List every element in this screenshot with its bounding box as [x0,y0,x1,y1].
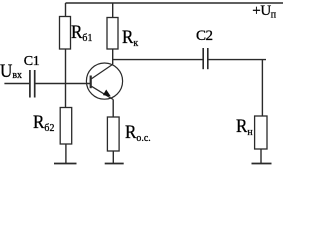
transistor base bar [90,76,92,89]
resistor Rn [255,116,267,149]
wire: Rb1 bottom through base node to Rb2 top [65,49,67,108]
wire: collector node to C2 [113,59,203,61]
capacitor C2 [202,48,204,69]
label Ro.c. [125,123,151,144]
resistor Rk [107,18,118,50]
wire: Rn to ground [260,149,262,164]
ground (Rb2) [54,163,77,165]
label C2 [196,29,213,44]
wire: corner down to Rn [261,60,263,116]
resistor Ro.c. [107,117,119,151]
transistor VT1 circle [86,63,122,99]
label Rb1 [71,23,92,44]
capacitor C1 [29,70,31,98]
label C1 [24,55,40,69]
wire: rail to Rb1 [65,3,67,17]
wire: rail to Rk [112,3,114,18]
transistor emitter lead [92,86,113,99]
label Rk [122,28,138,49]
wire: C2 to corner [208,59,266,61]
wire: Rk bottom to collector [112,49,114,65]
label Rb2 [33,113,54,134]
wire: +Up top rail [66,2,284,4]
ground (Rn) [252,163,272,165]
wire: C1 to base [35,83,90,85]
label +Up (supply) [252,4,275,21]
transistor emitter arrow [103,90,111,97]
label Rn (load) [236,117,253,138]
wire: Ro.c. to ground [112,151,114,164]
wire: emitter down to Ro.c. [112,99,114,117]
wire: input Uvx [4,83,29,85]
resistor Rb2 [60,108,71,145]
transistor collector lead [92,64,114,79]
label Uvx (input voltage) [0,62,22,81]
resistor Rb1 [60,17,71,50]
ground (Ro.c.) [105,163,124,165]
wire: Rb2 to ground [65,144,67,164]
